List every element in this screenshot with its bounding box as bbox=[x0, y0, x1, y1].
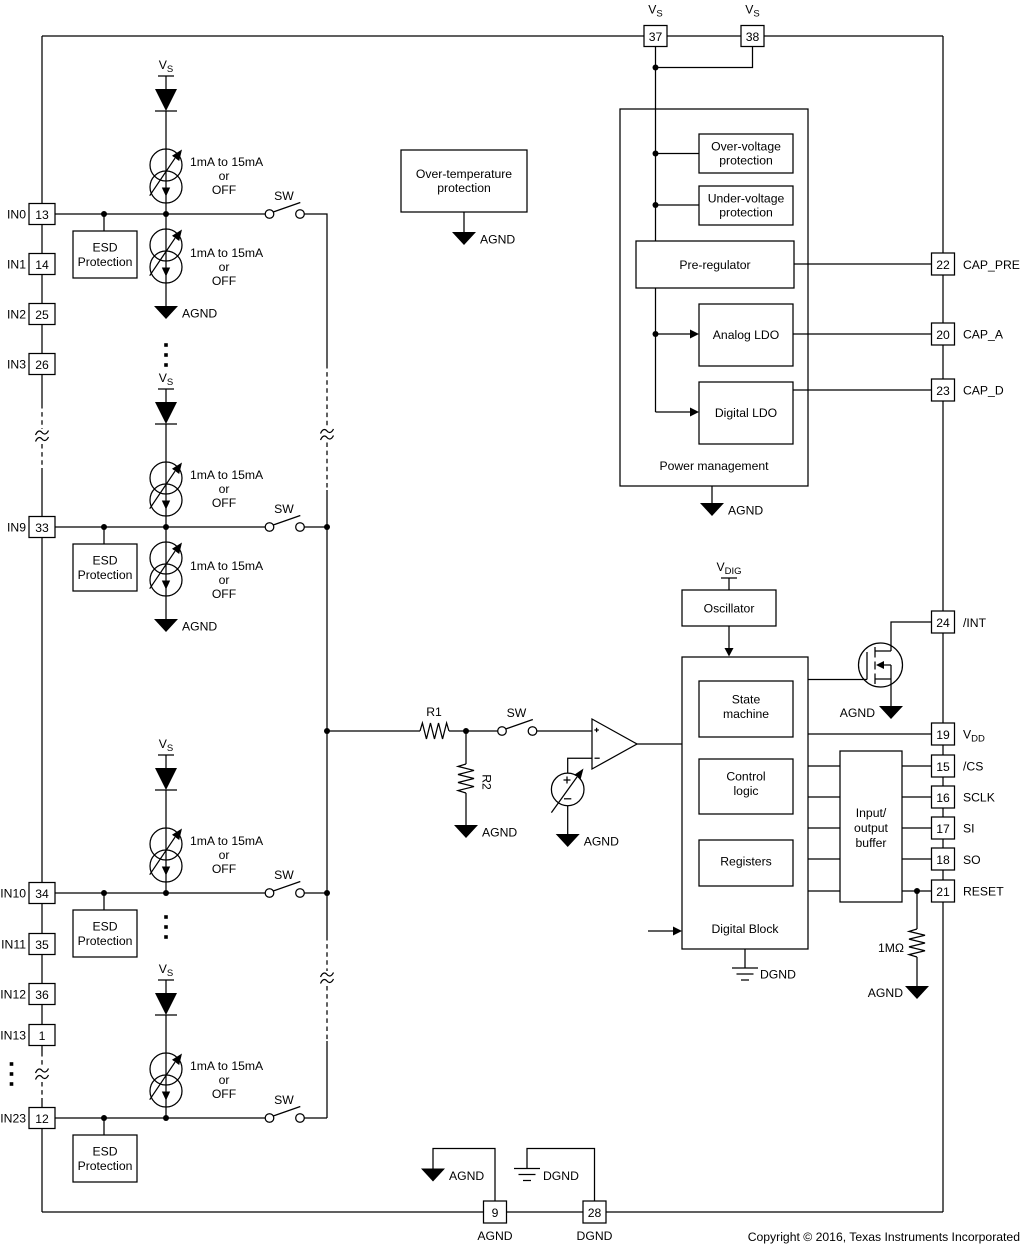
svg-text:26: 26 bbox=[35, 358, 49, 372]
wire analog LDO to CAP_A pin 20 bbox=[793, 333, 932, 335]
svg-text:IN0: IN0 bbox=[7, 208, 26, 222]
svg-text:Protection: Protection bbox=[78, 934, 133, 948]
programmable source current source 1mA to 15mA (IN23) bbox=[150, 1053, 182, 1085]
pin 23 CAP_D bbox=[932, 379, 955, 401]
wire buffer to SI pin 17 bbox=[902, 827, 932, 829]
svg-text:SCLK: SCLK bbox=[963, 791, 995, 805]
chip boundary bottom border bbox=[42, 1211, 943, 1213]
junction dot VS rail pins 37/38 bbox=[653, 65, 659, 71]
svg-text:25: 25 bbox=[35, 308, 49, 322]
pin 15 /CS bbox=[932, 755, 955, 777]
svg-text:9: 9 bbox=[492, 1206, 499, 1220]
pin 14 IN1 bbox=[29, 254, 55, 275]
svg-text:1mA to 15mA: 1mA to 15mA bbox=[190, 246, 264, 260]
wire digital block to buffer row SI bbox=[808, 827, 840, 829]
input bus wire from IN0 switch down (solid upper segment) bbox=[304, 214, 327, 364]
svg-text:AGND: AGND bbox=[840, 706, 875, 720]
svg-text:Protection: Protection bbox=[78, 255, 133, 269]
chip boundary left border dashed break between IN3 and IN9 bbox=[41, 404, 43, 429]
ground DGND below digital block bbox=[732, 967, 758, 969]
wire diode to current source to IN0 node bbox=[165, 111, 167, 214]
pin 18 SO bbox=[932, 848, 955, 870]
programmable sink current source 1mA to 15mA (IN9) bbox=[150, 542, 182, 574]
svg-text:or: or bbox=[219, 1073, 230, 1087]
junction dot ESD tap on IN0 bbox=[101, 211, 107, 217]
oscillator block bbox=[682, 590, 776, 626]
chip boundary left border dashed break between IN13 and IN23 bbox=[41, 1052, 43, 1067]
svg-text:1mA to 15mA: 1mA to 15mA bbox=[190, 468, 264, 482]
switch SW in comparator path bbox=[498, 727, 507, 736]
junction dot input bus at comparator branch bbox=[324, 728, 330, 734]
ESD tap wire (IN0) bbox=[103, 214, 105, 231]
svg-text:SW: SW bbox=[274, 868, 294, 882]
svg-text:1: 1 bbox=[39, 1029, 46, 1043]
programmable source current source 1mA to 15mA (IN0) bbox=[150, 149, 182, 181]
ground DGND inside chip bottom bbox=[514, 1168, 540, 1170]
svg-text:IN1: IN1 bbox=[7, 258, 26, 272]
svg-text:28: 28 bbox=[588, 1206, 602, 1220]
svg-text:RESET: RESET bbox=[963, 885, 1004, 899]
pin 36 IN12 bbox=[29, 984, 55, 1005]
junction dot R1/R2 node bbox=[463, 728, 469, 734]
input bus dashed segment bbox=[326, 443, 328, 491]
svg-text:IN11: IN11 bbox=[1, 938, 26, 952]
wire diode to current source to IN9 node bbox=[165, 424, 167, 527]
diode from VS into IN0 current source bbox=[155, 89, 177, 111]
svg-text:Analog LDO: Analog LDO bbox=[713, 328, 779, 342]
wire buffer to RESET pin 21 bbox=[902, 890, 932, 892]
svg-text:OFF: OFF bbox=[212, 587, 236, 601]
switch SW (IN10) bbox=[265, 889, 274, 898]
svg-text:DGND: DGND bbox=[760, 968, 796, 982]
svg-text:12: 12 bbox=[35, 1112, 49, 1126]
variable threshold voltage source bbox=[551, 773, 584, 806]
svg-text:AGND: AGND bbox=[584, 835, 619, 849]
state machine block bbox=[699, 681, 793, 737]
junction dot current source on IN0 bbox=[163, 211, 169, 217]
svg-text:IN9: IN9 bbox=[7, 521, 26, 535]
ESD tap wire (IN9) bbox=[103, 527, 105, 544]
svg-text:VS: VS bbox=[159, 962, 173, 979]
wire comparator output to digital block bbox=[637, 743, 682, 745]
wire pin 28 to DGND symbol bbox=[527, 1149, 595, 1202]
svg-text:36: 36 bbox=[35, 988, 49, 1002]
svg-text:VS: VS bbox=[648, 3, 662, 20]
wire MOSFET source to AGND bbox=[890, 679, 892, 706]
svg-text:State: State bbox=[732, 693, 761, 707]
svg-text:Over-voltage: Over-voltage bbox=[711, 140, 781, 154]
chip boundary left border lower segment bbox=[41, 1098, 43, 1212]
pin 38 VS bbox=[741, 26, 764, 47]
svg-text:19: 19 bbox=[936, 728, 950, 742]
svg-text:OFF: OFF bbox=[212, 496, 236, 510]
chip boundary top border bbox=[42, 35, 943, 37]
svg-text:OFF: OFF bbox=[212, 274, 236, 288]
svg-text:Control: Control bbox=[726, 770, 765, 784]
wire pin 37 VS rail down into power management bbox=[655, 46, 657, 241]
svg-text:VS: VS bbox=[159, 737, 173, 754]
wire digital block to VDD pin 19 bbox=[808, 733, 932, 735]
junction dot RESET pulldown tap bbox=[914, 888, 920, 894]
ESD Protection block (IN10) bbox=[73, 910, 137, 957]
junction dot input bus at IN9 row bbox=[324, 524, 330, 530]
svg-text:SW: SW bbox=[274, 1093, 294, 1107]
switch SW (IN23) bbox=[265, 1114, 274, 1123]
svg-text:AGND: AGND bbox=[477, 1229, 512, 1243]
junction dot analog LDO tap bbox=[653, 331, 659, 337]
ground AGND below IN0 sink source bbox=[154, 306, 178, 319]
svg-text:or: or bbox=[219, 848, 230, 862]
svg-text:CAP_PRE: CAP_PRE bbox=[963, 258, 1020, 272]
svg-text:VDIG: VDIG bbox=[716, 560, 741, 577]
pin 33 IN9 bbox=[29, 517, 55, 538]
svg-text:Digital Block: Digital Block bbox=[711, 922, 779, 936]
svg-text:R1: R1 bbox=[426, 705, 442, 719]
svg-text:DGND: DGND bbox=[543, 1169, 579, 1183]
ground AGND below MOSFET bbox=[879, 706, 903, 719]
svg-text:protection: protection bbox=[437, 181, 491, 195]
wire pin 24 /INT to MOSFET drain bbox=[891, 622, 932, 651]
switch SW (IN9) bbox=[265, 523, 274, 532]
svg-text:or: or bbox=[219, 482, 230, 496]
svg-text:VDD: VDD bbox=[963, 728, 985, 745]
wire buffer to SO pin 18 bbox=[902, 858, 932, 860]
svg-text:IN13: IN13 bbox=[0, 1029, 26, 1043]
tap wire to over-voltage protection bbox=[656, 153, 700, 155]
svg-text:CAP_A: CAP_A bbox=[963, 328, 1004, 342]
transistor Q1 interrupt open-drain MOSFET bbox=[859, 643, 903, 687]
svg-text:SW: SW bbox=[274, 502, 294, 516]
ESD Protection block (IN0) bbox=[73, 231, 137, 278]
under-voltage protection block bbox=[699, 186, 793, 225]
comparator U1 bbox=[592, 719, 637, 769]
input row wire IN23 pin to switch bbox=[55, 1117, 265, 1119]
chip boundary left border dashed segment above IN23 bbox=[41, 1082, 43, 1098]
svg-text:Over-temperature: Over-temperature bbox=[416, 167, 512, 181]
input bus solid middle segment (IN9 row to IN10 row) bbox=[326, 490, 328, 936]
svg-text:AGND: AGND bbox=[449, 1169, 484, 1183]
svg-text:VS: VS bbox=[159, 58, 173, 75]
svg-text:OFF: OFF bbox=[212, 1087, 236, 1101]
vertical ellipsis dots below IN10 row bbox=[164, 915, 168, 919]
wire digital block to buffer row CS bbox=[808, 765, 840, 767]
svg-text:35: 35 bbox=[35, 938, 49, 952]
wire power management block to AGND bbox=[711, 486, 713, 503]
wire digital block to buffer row SCLK bbox=[808, 796, 840, 798]
chip boundary left border dashed segment below squiggle bbox=[41, 444, 43, 468]
wire R1/R2 node down to R2 bbox=[465, 731, 467, 764]
junction dot current source on IN9 bbox=[163, 524, 169, 530]
svg-text:AGND: AGND bbox=[868, 986, 903, 1000]
svg-text:VS: VS bbox=[159, 371, 173, 388]
chip boundary left border middle segment (IN9 to IN13) bbox=[41, 468, 43, 1052]
svg-text:logic: logic bbox=[733, 784, 758, 798]
break squiggle on input bus lower bbox=[321, 973, 334, 978]
input bus dashed break lower bbox=[326, 936, 328, 971]
pin 37 VS bbox=[644, 26, 667, 47]
wire pre-regulator to CAP_PRE pin 22 bbox=[794, 263, 932, 265]
junction dot under-voltage tap bbox=[653, 202, 659, 208]
Analog LDO block bbox=[699, 304, 793, 366]
svg-text:33: 33 bbox=[35, 521, 49, 535]
svg-text:IN2: IN2 bbox=[7, 308, 26, 322]
pin 12 IN23 bbox=[29, 1108, 55, 1129]
programmable source current source 1mA to 15mA (IN10) bbox=[150, 828, 182, 860]
programmable source current source 1mA to 15mA (IN9) bbox=[150, 462, 182, 494]
wire switch to input bus (IN10) bbox=[304, 892, 327, 894]
junction dot over-voltage tap bbox=[653, 151, 659, 157]
break squiggle on left pin chain IN13-IN23 bbox=[36, 1069, 49, 1074]
svg-text:OFF: OFF bbox=[212, 183, 236, 197]
svg-text:DGND: DGND bbox=[577, 1229, 613, 1243]
svg-text:15: 15 bbox=[936, 760, 950, 774]
arrow wire into digital block bottom left bbox=[648, 930, 674, 932]
input row wire IN10 pin to switch bbox=[55, 892, 265, 894]
chip boundary right border bbox=[942, 36, 944, 1212]
svg-text:ESD: ESD bbox=[92, 1145, 117, 1159]
pre-regulator block bbox=[636, 241, 794, 288]
wire pin 9 to AGND symbol bbox=[433, 1149, 495, 1202]
input bus dashed break upper bbox=[326, 364, 328, 427]
pin 9 AGND bbox=[484, 1201, 507, 1223]
svg-text:AGND: AGND bbox=[482, 826, 517, 840]
ground AGND below IN9 sink source bbox=[154, 619, 178, 632]
svg-text:Protection: Protection bbox=[78, 568, 133, 582]
wire switch to input bus (IN23) bbox=[304, 1117, 327, 1119]
svg-text:AGND: AGND bbox=[480, 233, 515, 247]
svg-text:SI: SI bbox=[963, 822, 975, 836]
wire diode to current source to IN10 node bbox=[165, 790, 167, 893]
wire VS to diode (IN10) bbox=[165, 755, 167, 768]
pin 20 CAP_A bbox=[932, 323, 955, 345]
input row wire IN0 pin to switch bbox=[55, 213, 265, 215]
input row wire IN9 pin to switch bbox=[55, 526, 265, 528]
svg-text:protection: protection bbox=[719, 154, 773, 168]
wire threshold source to AGND bbox=[567, 806, 569, 834]
svg-text:buffer: buffer bbox=[856, 836, 887, 850]
tap wire to under-voltage protection bbox=[656, 204, 700, 206]
chip boundary left border upper segment (through IN0-IN3 pins) bbox=[41, 36, 43, 404]
wire pre-regulator output rail down to LDOs bbox=[655, 288, 657, 412]
ESD tap wire (IN10) bbox=[103, 893, 105, 910]
svg-text:VS: VS bbox=[745, 3, 759, 20]
registers block bbox=[699, 840, 793, 886]
svg-text:21: 21 bbox=[936, 885, 950, 899]
svg-text:23: 23 bbox=[936, 384, 950, 398]
diode from VS into IN10 current source bbox=[155, 768, 177, 790]
svg-text:AGND: AGND bbox=[182, 620, 217, 634]
wire VS to diode (IN23) bbox=[165, 980, 167, 993]
pin 1 IN13 bbox=[29, 1025, 55, 1046]
Digital LDO block bbox=[699, 382, 793, 444]
svg-text:1mA to 15mA: 1mA to 15mA bbox=[190, 155, 264, 169]
svg-text:37: 37 bbox=[649, 30, 663, 44]
pin 35 IN11 bbox=[29, 934, 55, 955]
break squiggle on left pin chain IN3-IN9 bbox=[36, 431, 49, 436]
ESD Protection block (IN9) bbox=[73, 544, 137, 591]
svg-text:Protection: Protection bbox=[78, 1159, 133, 1173]
junction dot current source on IN10 bbox=[163, 890, 169, 896]
ground AGND inside chip bottom bbox=[421, 1169, 445, 1182]
svg-text:AGND: AGND bbox=[182, 307, 217, 321]
wire digital block to buffer row RESET bbox=[808, 890, 840, 892]
svg-text:Registers: Registers bbox=[720, 855, 771, 869]
ground AGND below R2 bbox=[454, 825, 478, 838]
svg-text:or: or bbox=[219, 573, 230, 587]
wire RESET tap to resistor 1Mohm bbox=[916, 891, 918, 929]
svg-text:Power management: Power management bbox=[659, 459, 769, 473]
control logic block bbox=[699, 759, 793, 814]
pin 28 DGND bbox=[583, 1201, 606, 1223]
svg-text:24: 24 bbox=[936, 616, 950, 630]
junction dot current source on IN23 bbox=[163, 1115, 169, 1121]
svg-text:22: 22 bbox=[936, 258, 950, 272]
input bus solid bottom segment to IN23 row bbox=[326, 1041, 328, 1118]
arrow wire into Analog LDO bbox=[656, 333, 692, 335]
svg-text:ESD: ESD bbox=[92, 920, 117, 934]
svg-text:R2: R2 bbox=[480, 774, 494, 790]
wire switch to comparator non-inverting input bbox=[537, 730, 592, 732]
svg-text:14: 14 bbox=[35, 258, 49, 272]
wire pin 38 to VS rail bbox=[656, 46, 753, 68]
junction dot ESD tap on IN23 bbox=[101, 1115, 107, 1121]
wire sink current source to AGND (IN0) bbox=[165, 214, 167, 306]
junction dot ESD tap on IN9 bbox=[101, 524, 107, 530]
over-temperature protection block bbox=[401, 150, 527, 212]
pin 22 CAP_PRE bbox=[932, 253, 955, 275]
svg-text:Input/: Input/ bbox=[856, 806, 887, 820]
wire input bus to resistor R1 bbox=[327, 730, 420, 732]
over-voltage protection block bbox=[699, 134, 793, 173]
svg-text:IN12: IN12 bbox=[0, 988, 26, 1002]
svg-text:protection: protection bbox=[719, 206, 773, 220]
svg-text:AGND: AGND bbox=[728, 504, 763, 518]
wire diode to current source to IN23 node bbox=[165, 1015, 167, 1118]
svg-text:34: 34 bbox=[35, 887, 49, 901]
svg-text:13: 13 bbox=[35, 208, 49, 222]
ground AGND below power management bbox=[700, 503, 724, 516]
vertical ellipsis dots below IN0 cell bbox=[164, 343, 168, 347]
ESD Protection block (IN23) bbox=[73, 1135, 137, 1182]
svg-text:SW: SW bbox=[507, 706, 527, 720]
wire VS to diode (IN0) bbox=[165, 76, 167, 89]
svg-text:1MΩ: 1MΩ bbox=[878, 941, 904, 955]
svg-text:Under-voltage: Under-voltage bbox=[708, 192, 785, 206]
svg-text:Copyright © 2016, Texas Instru: Copyright © 2016, Texas Instruments Inco… bbox=[748, 1230, 1020, 1244]
digital block outline bbox=[682, 657, 808, 949]
diode from VS into IN9 current source bbox=[155, 402, 177, 424]
svg-text:output: output bbox=[854, 821, 888, 835]
wire digital block to buffer row SO bbox=[808, 858, 840, 860]
ground AGND below threshold source bbox=[556, 834, 580, 847]
pin 13 IN0 bbox=[29, 204, 55, 225]
svg-text:/INT: /INT bbox=[963, 616, 987, 630]
ESD tap wire (IN23) bbox=[103, 1118, 105, 1135]
vertical ellipsis dots left margin between IN13 and IN23 bbox=[10, 1062, 14, 1066]
ground AGND below 1Mohm resistor bbox=[905, 986, 929, 999]
resistor R2 bbox=[458, 764, 474, 793]
break squiggle on input bus upper bbox=[321, 429, 334, 434]
svg-text:Pre-regulator: Pre-regulator bbox=[679, 258, 750, 272]
wire digital block to DGND bbox=[744, 949, 746, 968]
arrow wire into Digital LDO bbox=[656, 411, 692, 413]
resistor 1Mohm RESET pulldown bbox=[909, 929, 925, 957]
wire digital LDO to CAP_D pin 23 bbox=[793, 389, 932, 391]
pin 21 RESET bbox=[932, 880, 955, 902]
svg-text:OFF: OFF bbox=[212, 862, 236, 876]
wire over-temperature block to AGND bbox=[463, 212, 465, 232]
svg-text:SO: SO bbox=[963, 853, 981, 867]
wire R2 to AGND bbox=[465, 793, 467, 825]
junction dot ESD tap on IN10 bbox=[101, 890, 107, 896]
svg-text:38: 38 bbox=[746, 30, 760, 44]
wire R1 to switch bbox=[449, 730, 498, 732]
svg-text:SW: SW bbox=[274, 189, 294, 203]
pin 34 IN10 bbox=[29, 883, 55, 904]
input bus dashed segment lower bbox=[326, 986, 328, 1041]
switch SW (IN0) bbox=[265, 210, 274, 219]
wire switch to input bus (IN9) bbox=[304, 526, 327, 528]
svg-text:/CS: /CS bbox=[963, 760, 983, 774]
ground AGND below over-temperature block bbox=[452, 232, 476, 245]
svg-text:IN3: IN3 bbox=[7, 358, 26, 372]
svg-text:1mA to 15mA: 1mA to 15mA bbox=[190, 834, 264, 848]
svg-text:18: 18 bbox=[936, 853, 950, 867]
svg-text:IN10: IN10 bbox=[0, 887, 26, 901]
svg-text:or: or bbox=[219, 260, 230, 274]
svg-text:machine: machine bbox=[723, 707, 769, 721]
wire sink current source to AGND (IN9) bbox=[165, 527, 167, 619]
arrow wire oscillator to digital block bbox=[728, 626, 730, 650]
svg-text:1mA to 15mA: 1mA to 15mA bbox=[190, 1059, 264, 1073]
svg-text:ESD: ESD bbox=[92, 241, 117, 255]
svg-text:Oscillator: Oscillator bbox=[704, 602, 755, 616]
pin 24 /INT bbox=[932, 611, 955, 633]
svg-text:IN23: IN23 bbox=[0, 1112, 26, 1126]
svg-text:Digital LDO: Digital LDO bbox=[715, 406, 777, 420]
svg-text:16: 16 bbox=[936, 791, 950, 805]
svg-text:CAP_D: CAP_D bbox=[963, 384, 1004, 398]
wire VS to diode (IN9) bbox=[165, 389, 167, 402]
svg-text:ESD: ESD bbox=[92, 554, 117, 568]
power management block outline bbox=[620, 109, 808, 486]
pin 16 SCLK bbox=[932, 786, 955, 808]
svg-text:20: 20 bbox=[936, 328, 950, 342]
input/output buffer block bbox=[840, 751, 902, 902]
resistor R1 bbox=[420, 723, 449, 739]
wire buffer to SCLK pin 16 bbox=[902, 796, 932, 798]
programmable sink current source 1mA to 15mA (IN0) bbox=[150, 229, 182, 261]
pin 17 SI bbox=[932, 817, 955, 839]
pin 25 IN2 bbox=[29, 304, 55, 325]
wire buffer to /CS pin 15 bbox=[902, 765, 932, 767]
wire comparator inverting input to threshold source bbox=[568, 758, 592, 773]
svg-text:or: or bbox=[219, 169, 230, 183]
pin 19 VDD bbox=[932, 723, 955, 745]
wire 1Mohm resistor to AGND bbox=[916, 957, 918, 986]
svg-text:1mA to 15mA: 1mA to 15mA bbox=[190, 559, 264, 573]
pin 26 IN3 bbox=[29, 354, 55, 375]
svg-text:17: 17 bbox=[936, 822, 950, 836]
wire VDIG to oscillator bbox=[728, 578, 730, 590]
diode from VS into IN23 current source bbox=[155, 993, 177, 1015]
junction dot input bus at IN10 row bbox=[324, 890, 330, 896]
